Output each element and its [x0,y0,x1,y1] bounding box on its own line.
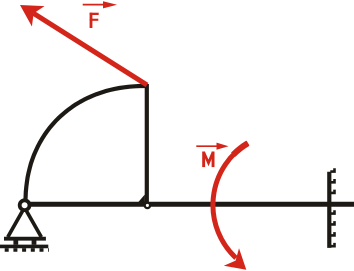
curved quarter-arc member [25,86,146,203]
fillet at strut/beam joint [138,195,145,204]
ground bar [0,245,48,249]
moment M arrowhead [224,248,247,270]
label M vector arrow [196,145,218,147]
wall (fixed support line) [327,172,331,248]
beam (horizontal member) [25,202,354,207]
force F arrowhead [20,5,45,27]
pin support base line [4,237,46,241]
moment M arc thickened top end [233,143,248,155]
label M [202,152,214,168]
wall hatch teeth [330,168,334,246]
pin support stubs [13,240,18,245]
pin support triangle [8,208,42,238]
force F arrow shaft [34,13,147,85]
label F [90,13,99,28]
moment M curved arrow arc [213,143,248,258]
label F vector arrow [83,4,104,6]
node circle at strut/beam joint [145,203,150,208]
vertical strut member [145,84,149,204]
pin joint circle [20,200,30,210]
ground hatch teeth [5,248,49,252]
